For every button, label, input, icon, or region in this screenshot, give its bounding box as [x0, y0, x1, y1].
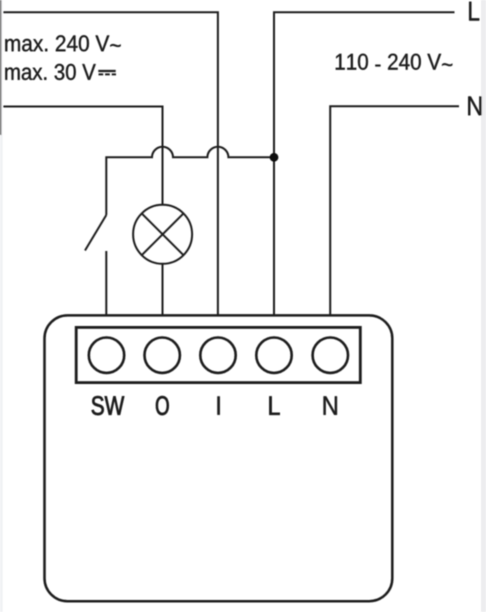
- wire lamp to terminal O: [162, 264, 164, 316]
- wire L: from label L down to terminal L: [274, 12, 455, 316]
- terminal label O: [156, 396, 169, 415]
- left page-edge dark hairline: [0, 0, 1, 135]
- terminal O: [145, 338, 180, 373]
- right page-edge strip: [481, 0, 486, 612]
- terminal N: [313, 338, 348, 373]
- label max. 30 V dc: [5, 64, 95, 80]
- node junction on L wire: [270, 153, 279, 162]
- terminal label L: [269, 396, 279, 414]
- wire switch bottom to terminal SW: [105, 251, 107, 316]
- terminal I: [200, 338, 235, 373]
- terminal label SW: [92, 396, 125, 415]
- terminal label I: [217, 396, 219, 414]
- lamp E1: [133, 205, 192, 264]
- net label L: [469, 2, 479, 21]
- label max. 240 V~: [5, 35, 120, 51]
- terminal L: [256, 338, 291, 373]
- terminal label N: [324, 396, 337, 414]
- switch S1 blade: [85, 215, 106, 251]
- left page-edge strip light: [0, 0, 3, 612]
- wire N: from label N down to terminal N: [330, 106, 459, 316]
- terminal SW: [89, 338, 124, 373]
- wire switch horizontal with hops to L node: [106, 147, 274, 215]
- wire I: from left edge to terminal I: [3, 12, 218, 316]
- wire O: from left edge down to lamp: [3, 107, 162, 206]
- dc symbol: [98, 71, 116, 74]
- terminal strip: [76, 327, 360, 382]
- device box: [45, 315, 393, 601]
- net label N: [468, 97, 481, 116]
- label 110 - 240 V~: [336, 54, 453, 70]
